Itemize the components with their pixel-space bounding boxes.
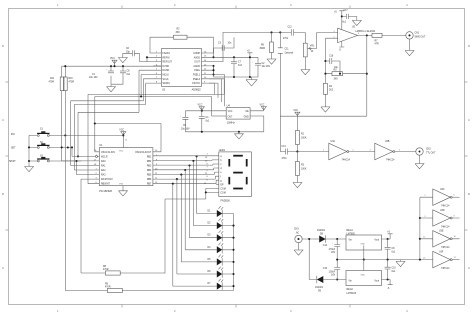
svg-text:RB1: RB1 bbox=[147, 156, 152, 158]
svg-text:470uF: 470uF bbox=[329, 249, 336, 251]
svg-text:U3E: U3E bbox=[439, 231, 444, 233]
VCC symbol feeding R1 bbox=[293, 110, 300, 116]
svg-text:2K2: 2K2 bbox=[329, 90, 334, 92]
op U4 oscillator body bbox=[226, 105, 250, 125]
svg-text:C17: C17 bbox=[344, 10, 349, 12]
svg-text:470R: 470R bbox=[103, 269, 109, 271]
svg-text:VCC: VCC bbox=[110, 58, 115, 60]
junction bbox=[366, 34, 368, 36]
svg-text:C13: C13 bbox=[282, 146, 287, 148]
regulator REG2 LM79L05 bbox=[346, 260, 382, 295]
svg-text:RB7: RB7 bbox=[147, 184, 152, 186]
wire FSADJ loop to R2 bbox=[150, 37, 214, 53]
svg-text:VDD: VDD bbox=[119, 151, 124, 153]
svg-text:COM: COM bbox=[220, 189, 225, 191]
svg-text:U3C: U3C bbox=[440, 189, 445, 191]
led D1 bbox=[208, 206, 234, 217]
wire REG2 Vout and -5 symbol bbox=[382, 280, 393, 285]
capacitor C6 (REFOUT decoupling) bbox=[123, 48, 154, 62]
ground below CN2 bbox=[415, 155, 424, 169]
inverter U3B bbox=[370, 141, 402, 162]
svg-text:A: A bbox=[468, 266, 470, 270]
resistor R8 display common bbox=[81, 266, 165, 275]
wire segment nets PIC RB1-RB7 to display and LEDs bbox=[153, 156, 219, 185]
wire VR1 bottom to ground bbox=[304, 57, 306, 70]
junction bbox=[110, 65, 112, 67]
capacitor C2 tantalum bbox=[252, 57, 271, 77]
svg-text:COMP: COMP bbox=[193, 53, 200, 55]
svg-text:Vout: Vout bbox=[374, 280, 379, 283]
wire U4 VCC row bbox=[185, 110, 226, 112]
svg-text:VCC: VCC bbox=[228, 111, 233, 113]
junction bbox=[212, 73, 214, 75]
svg-text:74HC14: 74HC14 bbox=[342, 160, 351, 162]
svg-text:VR1: VR1 bbox=[310, 46, 315, 48]
svg-text:Vout: Vout bbox=[374, 239, 379, 242]
svg-text:VCC: VCC bbox=[198, 105, 203, 107]
svg-text:100uF: 100uF bbox=[329, 271, 336, 273]
ground below C1 bbox=[107, 85, 116, 92]
svg-text:SCLK: SCLK bbox=[163, 79, 169, 81]
wire U3B out to CN2 bbox=[395, 151, 416, 153]
junction bbox=[212, 56, 214, 58]
svg-text:PSEL1: PSEL1 bbox=[193, 75, 201, 77]
ground below CN1 bbox=[405, 39, 414, 56]
switch S3 SHIFT bbox=[9, 156, 81, 164]
svg-text:CN3: CN3 bbox=[294, 229, 299, 231]
svg-text:B: B bbox=[2, 192, 4, 196]
svg-text:470R: 470R bbox=[49, 81, 55, 83]
junction bbox=[232, 285, 234, 287]
resistor R11 pullup bbox=[49, 77, 65, 91]
wire feedback vertical from output bbox=[280, 35, 367, 116]
svg-text:RA2: RA2 bbox=[101, 169, 106, 172]
capacitor C12 coupling bbox=[280, 27, 305, 40]
svg-text:Optional: Optional bbox=[285, 51, 294, 54]
capacitor C4 bbox=[199, 111, 210, 132]
wire REG1 Vout and +5 symbol bbox=[382, 234, 393, 239]
svg-text:C15: C15 bbox=[323, 268, 328, 270]
svg-text:C12: C12 bbox=[288, 27, 293, 29]
svg-text:FSADJ: FSADJ bbox=[163, 52, 170, 55]
junction bbox=[64, 65, 66, 67]
svg-text:AGND: AGND bbox=[193, 65, 200, 68]
resistor R2 above U2 bbox=[174, 29, 188, 40]
svg-text:SET: SET bbox=[11, 148, 16, 150]
svg-text:MCLK: MCLK bbox=[163, 75, 170, 77]
svg-text:10u 16V: 10u 16V bbox=[262, 66, 271, 68]
wire COM rows bbox=[165, 188, 219, 273]
svg-text:AD9832: AD9832 bbox=[192, 89, 202, 92]
switch S1 INC bbox=[11, 129, 123, 137]
junction bbox=[64, 134, 66, 136]
op U2 AD9832 chip body bbox=[162, 49, 202, 92]
potentiometer VR1 bbox=[303, 32, 315, 57]
svg-text:10u 16V: 10u 16V bbox=[181, 128, 190, 130]
diode D8 1N4001 bbox=[315, 230, 346, 243]
svg-text:470R: 470R bbox=[105, 287, 111, 289]
junction bbox=[336, 238, 338, 240]
junction bbox=[387, 278, 389, 280]
capacitor C1 10u (rail decoupling) bbox=[89, 66, 114, 84]
VCC symbol left rail bbox=[110, 58, 117, 66]
svg-text:LM79L05: LM79L05 bbox=[347, 293, 357, 295]
svg-text:PIC16F628: PIC16F628 bbox=[99, 190, 112, 193]
svg-text:47R: 47R bbox=[375, 44, 380, 46]
pin numbers LED1 bbox=[204, 154, 209, 185]
junction bbox=[61, 146, 63, 148]
wire CN3 to diodes bbox=[302, 239, 317, 280]
led D5 bbox=[208, 255, 234, 266]
junction bbox=[387, 259, 389, 261]
svg-text:470R: 470R bbox=[69, 81, 75, 83]
junction bbox=[212, 69, 214, 71]
connector CN2 TTL OUT bbox=[416, 148, 436, 155]
svg-text:RA1: RA1 bbox=[101, 165, 106, 168]
inverter U3D bbox=[420, 210, 460, 229]
junction bbox=[232, 237, 234, 239]
svg-text:RB0/INT: RB0/INT bbox=[101, 184, 110, 186]
capacitor C14 bbox=[323, 239, 340, 260]
svg-text:SHIFT: SHIFT bbox=[9, 161, 16, 163]
svg-text:74HC14: 74HC14 bbox=[441, 226, 450, 228]
svg-text:LED1: LED1 bbox=[219, 149, 226, 152]
wire RA4 from R8 riser bbox=[81, 179, 99, 273]
ground below R3b bbox=[293, 183, 302, 188]
svg-text:OSC2/CLKOUT: OSC2/CLKOUT bbox=[135, 152, 152, 154]
capacitor C10 output bbox=[385, 260, 397, 280]
junction bbox=[140, 95, 142, 97]
svg-text:REFIN: REFIN bbox=[163, 57, 170, 59]
junction bbox=[238, 131, 240, 133]
wire U2 left pin stubs bbox=[154, 53, 162, 83]
op-amp U5 bbox=[334, 27, 376, 43]
svg-text:D: D bbox=[468, 44, 470, 48]
svg-text:RB5: RB5 bbox=[147, 175, 152, 177]
ground arrow below AGND rail bbox=[246, 77, 257, 86]
junction bbox=[113, 65, 115, 67]
junction bbox=[419, 238, 421, 240]
junction bbox=[201, 131, 203, 133]
wire IOUT net vertical bbox=[280, 32, 285, 151]
junction bbox=[94, 122, 96, 124]
svg-text:VCC: VCC bbox=[293, 110, 298, 112]
svg-text:VCC: VCC bbox=[119, 130, 124, 132]
junction bbox=[233, 56, 235, 58]
svg-text:RB2: RB2 bbox=[147, 161, 152, 163]
connector CN1 SINE OUT bbox=[406, 32, 426, 39]
svg-text:RA3: RA3 bbox=[101, 174, 106, 177]
junction bbox=[67, 146, 69, 148]
svg-text:10MHz: 10MHz bbox=[227, 121, 236, 124]
svg-text:LM7805: LM7805 bbox=[347, 233, 356, 235]
svg-text:D: D bbox=[2, 44, 4, 48]
junction bbox=[232, 261, 234, 263]
svg-text:MCLR: MCLR bbox=[101, 156, 108, 158]
wire inverter input bus bbox=[420, 197, 433, 259]
+5 tap symbol near AVDD bbox=[247, 51, 252, 78]
svg-text:SINE OUT: SINE OUT bbox=[415, 36, 426, 38]
svg-text:470n: 470n bbox=[283, 38, 289, 40]
junction bbox=[387, 238, 389, 240]
junction bbox=[419, 259, 421, 261]
svg-text:3K9: 3K9 bbox=[176, 32, 181, 34]
junction bbox=[77, 155, 79, 157]
svg-text:74HC14: 74HC14 bbox=[441, 206, 450, 208]
wire U2 right pin stubs bbox=[202, 53, 210, 83]
svg-text:PSEL0: PSEL0 bbox=[193, 79, 201, 81]
svg-text:VCC: VCC bbox=[260, 105, 265, 107]
connector CN3 AC input bbox=[294, 229, 302, 243]
regulator REG1 LM7805 bbox=[346, 230, 382, 260]
svg-text:74HC14: 74HC14 bbox=[441, 268, 450, 270]
led D3 bbox=[208, 230, 234, 241]
wire U4 OUT to clock riser bbox=[212, 115, 227, 117]
svg-text:U3A: U3A bbox=[331, 140, 336, 143]
capacitor C5 bbox=[180, 111, 190, 132]
junction bbox=[324, 73, 326, 75]
pin numbers U1 bbox=[94, 150, 158, 184]
junction bbox=[122, 65, 124, 67]
diode D9 1N4001 reversed bbox=[315, 276, 346, 293]
junction bbox=[270, 31, 272, 33]
svg-text:10u 16V: 10u 16V bbox=[89, 77, 98, 79]
inverter U3C bbox=[425, 189, 460, 208]
svg-text:DP: DP bbox=[220, 184, 224, 186]
resistor R6 IOUT load bbox=[260, 32, 274, 59]
ground below R4 bbox=[321, 107, 330, 112]
svg-text:3K9: 3K9 bbox=[334, 79, 339, 81]
svg-text:REG1: REG1 bbox=[347, 230, 354, 232]
svg-text:R10: R10 bbox=[69, 78, 74, 80]
svg-text:B: B bbox=[468, 192, 470, 196]
svg-text:300R: 300R bbox=[260, 48, 266, 50]
svg-text:A: A bbox=[2, 266, 4, 270]
svg-text:RB6: RB6 bbox=[147, 179, 152, 181]
junction bbox=[249, 76, 251, 78]
wire U4 OE to VCC bbox=[250, 107, 266, 111]
svg-text:VSS: VSS bbox=[119, 184, 124, 186]
capacitor C11 optional series bbox=[278, 48, 294, 55]
svg-text:100K: 100K bbox=[301, 137, 307, 139]
wire MCLK clock net bbox=[95, 75, 212, 152]
capacitor C8b 100n bbox=[111, 66, 131, 84]
junction bbox=[249, 56, 251, 58]
junction bbox=[336, 259, 338, 261]
led D7 bbox=[208, 279, 234, 290]
wire wiper to op-amp non-inverting input bbox=[312, 33, 338, 49]
resistor R3 feedback bbox=[325, 69, 366, 80]
wire U4 ground rail bbox=[185, 116, 263, 132]
wire op-amp output bbox=[358, 34, 406, 36]
inverter U3F bbox=[423, 251, 460, 270]
svg-text:74HC14: 74HC14 bbox=[441, 247, 450, 249]
capacitor C8 output bbox=[385, 239, 396, 260]
resistor R1 divider top bbox=[296, 116, 307, 151]
svg-text:1K: 1K bbox=[311, 51, 314, 53]
ground below switches bbox=[25, 167, 34, 172]
junction bbox=[212, 65, 214, 67]
svg-text:RB3: RB3 bbox=[147, 166, 152, 168]
svg-text:C: C bbox=[2, 118, 4, 122]
VCC symbol above U1 bbox=[119, 130, 128, 148]
led D6 bbox=[208, 267, 234, 278]
wire switch common to ground bbox=[28, 135, 30, 166]
svg-text:U3B: U3B bbox=[385, 141, 390, 143]
svg-text:FSYNC: FSYNC bbox=[192, 83, 200, 85]
op LED1 display body bbox=[219, 149, 252, 203]
wire FSEL/PSEL ties bbox=[209, 66, 214, 75]
wire LED branch columns bbox=[172, 155, 217, 286]
wire inverting input bbox=[325, 38, 337, 75]
svg-text:DGND: DGND bbox=[163, 70, 170, 72]
wire DGND net bbox=[78, 70, 154, 156]
svg-text:GND: GND bbox=[361, 275, 366, 277]
svg-text:RA0: RA0 bbox=[101, 160, 106, 163]
svg-text:FND500: FND500 bbox=[221, 200, 231, 203]
junction bbox=[205, 191, 207, 193]
svg-text:470n: 470n bbox=[282, 158, 288, 160]
COMP cap C3 bbox=[209, 37, 234, 53]
wire 0V rail bbox=[337, 259, 433, 261]
junction bbox=[363, 259, 365, 261]
svg-text:16V: 16V bbox=[331, 252, 336, 254]
wire R11 drop to RA0 bbox=[62, 91, 100, 291]
svg-text:OE: OE bbox=[245, 111, 249, 113]
resistor R7 output bbox=[372, 33, 382, 45]
wire AGND rail bbox=[209, 66, 258, 77]
svg-text:C16: C16 bbox=[329, 56, 334, 58]
svg-text:1N4001: 1N4001 bbox=[315, 287, 324, 289]
svg-text:SDATA: SDATA bbox=[163, 82, 171, 85]
wire SET node to MCLR bbox=[72, 147, 95, 156]
wire LED cathode bus bbox=[122, 214, 233, 291]
svg-text:DVDD: DVDD bbox=[163, 66, 170, 68]
junction bbox=[336, 278, 338, 280]
svg-text:C14: C14 bbox=[323, 245, 328, 247]
svg-text:U3D: U3D bbox=[440, 210, 445, 212]
capacitor C13 coupling bbox=[282, 146, 298, 160]
svg-text:100K: 100K bbox=[301, 169, 307, 171]
VCC symbol above U4 rail bbox=[198, 105, 205, 111]
ground below R6 bbox=[267, 59, 276, 64]
wire FSYNC tie to bus L2 bbox=[209, 83, 218, 98]
capacitor C16 bbox=[324, 56, 341, 75]
svg-text:AVDD: AVDD bbox=[194, 56, 201, 59]
svg-text:OSC1/CLKIN: OSC1/CLKIN bbox=[101, 152, 115, 154]
wire IOUT riser bbox=[209, 32, 280, 61]
junction bbox=[201, 110, 203, 112]
junction bbox=[279, 31, 281, 33]
wire SDATA net bbox=[74, 83, 153, 170]
capacitor C15 bbox=[323, 260, 340, 280]
svg-text:TTL OUT: TTL OUT bbox=[426, 153, 436, 155]
svg-text:FSEL: FSEL bbox=[194, 70, 200, 72]
wire OSC2 clock-out loop bbox=[95, 124, 161, 152]
svg-text:CN1: CN1 bbox=[415, 33, 420, 35]
ground arrow on 0V rail bbox=[396, 260, 405, 267]
junction bbox=[71, 146, 73, 148]
svg-text:1N4001: 1N4001 bbox=[317, 230, 326, 232]
svg-text:IOUT: IOUT bbox=[195, 62, 201, 64]
ground below U1 bbox=[119, 186, 128, 196]
svg-text:GND: GND bbox=[361, 244, 366, 246]
led D4 bbox=[208, 243, 234, 254]
op-amp +5 supply and C17 bbox=[334, 10, 361, 30]
junction bbox=[296, 150, 298, 152]
wire VCC rail y=66.2 bbox=[62, 66, 161, 77]
ground below C6 bbox=[118, 58, 127, 63]
svg-text:OUT: OUT bbox=[228, 116, 233, 118]
resistor R4 to ground rail bbox=[324, 74, 334, 107]
switch S2 SET bbox=[11, 142, 72, 150]
svg-text:INC: INC bbox=[11, 134, 15, 136]
junction bbox=[28, 160, 30, 162]
svg-text:REFOUT: REFOUT bbox=[163, 62, 173, 64]
svg-text:RB4: RB4 bbox=[147, 170, 152, 172]
resistor R9 bottom bbox=[65, 283, 122, 292]
svg-text:C: C bbox=[468, 118, 470, 122]
ground below CN3 bbox=[294, 243, 303, 256]
wire FSYNC net bbox=[88, 79, 224, 184]
junction bbox=[75, 160, 77, 162]
svg-text:U3F: U3F bbox=[439, 251, 444, 253]
op U1 PIC16F628 body bbox=[99, 144, 153, 193]
junction bbox=[366, 73, 368, 75]
svg-text:16V: 16V bbox=[331, 275, 336, 277]
svg-text:COM: COM bbox=[220, 193, 225, 195]
wire AVDD riser to +5 rail bbox=[209, 37, 214, 57]
wire PSEL0 tie to bus L3 bbox=[209, 79, 222, 102]
inverter U3A bbox=[323, 140, 355, 162]
7-seg digit segments bbox=[228, 155, 247, 190]
inverter U3E bbox=[420, 231, 460, 250]
svg-text:C10: C10 bbox=[392, 268, 397, 270]
svg-text:RA4/T0CKI: RA4/T0CKI bbox=[101, 178, 113, 181]
capacitor C7 bbox=[231, 57, 243, 77]
junction bbox=[232, 273, 234, 275]
junction bbox=[233, 76, 235, 78]
op-amp negative supply stub bbox=[339, 41, 344, 47]
led D2 bbox=[208, 218, 234, 229]
junction bbox=[308, 238, 310, 240]
wire U3A in/out bbox=[297, 151, 374, 153]
wire PSEL1 tie to bus L4 bbox=[209, 75, 225, 107]
pin numbers U2 bbox=[156, 51, 207, 83]
junction bbox=[419, 217, 421, 219]
svg-text:GND: GND bbox=[244, 116, 249, 118]
svg-text:74HC14: 74HC14 bbox=[386, 160, 395, 162]
svg-text:REG2: REG2 bbox=[347, 289, 354, 291]
wire SCLK net bbox=[71, 79, 154, 166]
resistor R10 pullup bbox=[63, 77, 74, 91]
svg-text:CN2: CN2 bbox=[426, 149, 431, 151]
wire SHIFT node to RA3 bbox=[77, 161, 100, 175]
resistor R3b divider bottom bbox=[296, 152, 307, 183]
junction bbox=[28, 146, 30, 148]
svg-text:AC: AC bbox=[296, 231, 300, 234]
junction bbox=[232, 249, 234, 251]
junction bbox=[232, 225, 234, 227]
ground arrow under U4 bbox=[234, 132, 243, 139]
